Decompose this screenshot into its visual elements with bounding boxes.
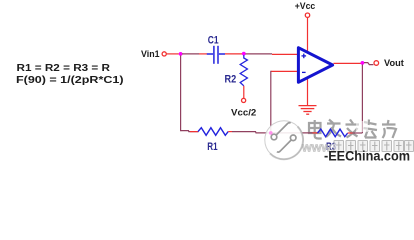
resistor R1 xyxy=(198,128,228,136)
wire junction A to C1 xyxy=(182,53,199,55)
wire junction B to op-amp + input xyxy=(246,53,273,55)
watermark logo circle xyxy=(265,121,303,159)
wire op-amp output to junction C xyxy=(334,62,362,64)
watermark url line xyxy=(301,141,414,155)
node junction D dot highlight xyxy=(269,131,273,135)
wire op-amp V- pin to ground xyxy=(307,78,309,106)
ground symbol xyxy=(299,106,317,115)
svg-text:R2: R2 xyxy=(225,74,237,86)
wire Vout junction vertical xyxy=(361,65,363,134)
watermark big characters xyxy=(309,120,396,139)
watermark wrench link icon xyxy=(271,123,296,152)
svg-text:Vcc/2: Vcc/2 xyxy=(231,108,256,118)
node junction B (C1/R2/op-amp +) xyxy=(242,52,246,56)
svg-text:R1 = R2 = R3 = R: R1 = R2 = R3 = R xyxy=(17,62,111,74)
svg-text:Vout: Vout xyxy=(384,58,405,69)
wire R1 right lead xyxy=(228,131,232,133)
svg-text:-EEChina.com: -EEChina.com xyxy=(324,148,410,163)
node junction A (Vin1 split) xyxy=(179,52,183,56)
resistor R2 xyxy=(240,55,247,98)
wire feedback corner to op-amp - input xyxy=(271,70,297,72)
svg-text:R1: R1 xyxy=(207,141,217,153)
terminal Vin1 xyxy=(162,52,166,56)
wire feedback vertical xyxy=(270,71,272,133)
wire C1 to junction B xyxy=(225,53,242,55)
node junction C (output) xyxy=(361,61,365,65)
wire +Vcc to op-amp V+ pin xyxy=(307,18,309,53)
svg-text:C1: C1 xyxy=(208,34,219,46)
op-amp U1 xyxy=(298,48,332,83)
svg-text:F(90) = 1/(2pR*C1): F(90) = 1/(2pR*C1) xyxy=(16,74,124,86)
watermark char overlap patch xyxy=(356,121,368,132)
wire R1 to feedback junction xyxy=(232,132,270,133)
terminal +Vcc xyxy=(305,13,309,17)
node junction D (feedback) xyxy=(269,131,273,135)
terminal Vout xyxy=(374,61,379,66)
capacitor C1 xyxy=(207,46,225,64)
svg-text:Vin1: Vin1 xyxy=(141,49,160,59)
resistor R3 xyxy=(318,129,348,137)
wire Vin1 terminal to input junction xyxy=(167,53,179,55)
wire R3 to Vout vertical xyxy=(348,132,353,134)
wire left vertical (Vin1 down) xyxy=(180,56,182,132)
wire junction C to Vout terminal xyxy=(364,63,373,65)
terminal Vcc/2 xyxy=(242,98,246,102)
svg-text:+Vcc: +Vcc xyxy=(295,1,316,11)
wire bottom left run xyxy=(181,131,199,132)
wire junction D to R3 xyxy=(272,132,312,134)
